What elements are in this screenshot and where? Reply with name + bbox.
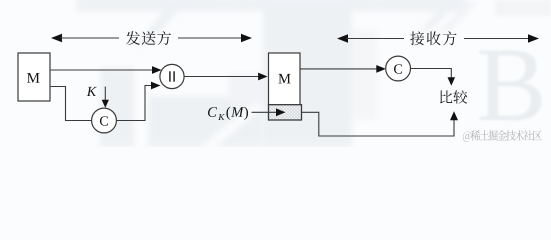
- wire C output down to compare: [411, 69, 456, 86]
- wire M bottom output to MAC function C: [51, 87, 92, 121]
- label C_K(M): [208, 107, 248, 120]
- watermark @稀土掘金技术社区: [463, 130, 542, 142]
- key K input arrow into C: [102, 87, 109, 108]
- box M (source message): [18, 53, 50, 101]
- box M (transmitted message): [269, 53, 301, 105]
- receiver-side span arrow (接收方): [337, 31, 539, 45]
- sender-side span arrow (发送方): [51, 31, 252, 45]
- concatenation node ||: [160, 64, 184, 88]
- wire concat to transmitted message: [184, 73, 268, 81]
- wire M top output to concat: [51, 66, 162, 74]
- label 比较 (compare): [440, 90, 467, 103]
- label K (key): [87, 87, 97, 96]
- MAC function C (receiver): [386, 56, 411, 81]
- wire received M to MAC function C (receiver): [300, 65, 386, 73]
- appended MAC block (hatched): [269, 105, 302, 120]
- wire C output up to concat: [116, 82, 160, 121]
- arrow from C_K(M) into MAC block: [252, 108, 286, 116]
- wire MAC block to compare: [302, 111, 459, 136]
- watermark letter B: [479, 51, 541, 121]
- watermark blobs: [76, 0, 551, 147]
- MAC function C (sender): [92, 108, 117, 133]
